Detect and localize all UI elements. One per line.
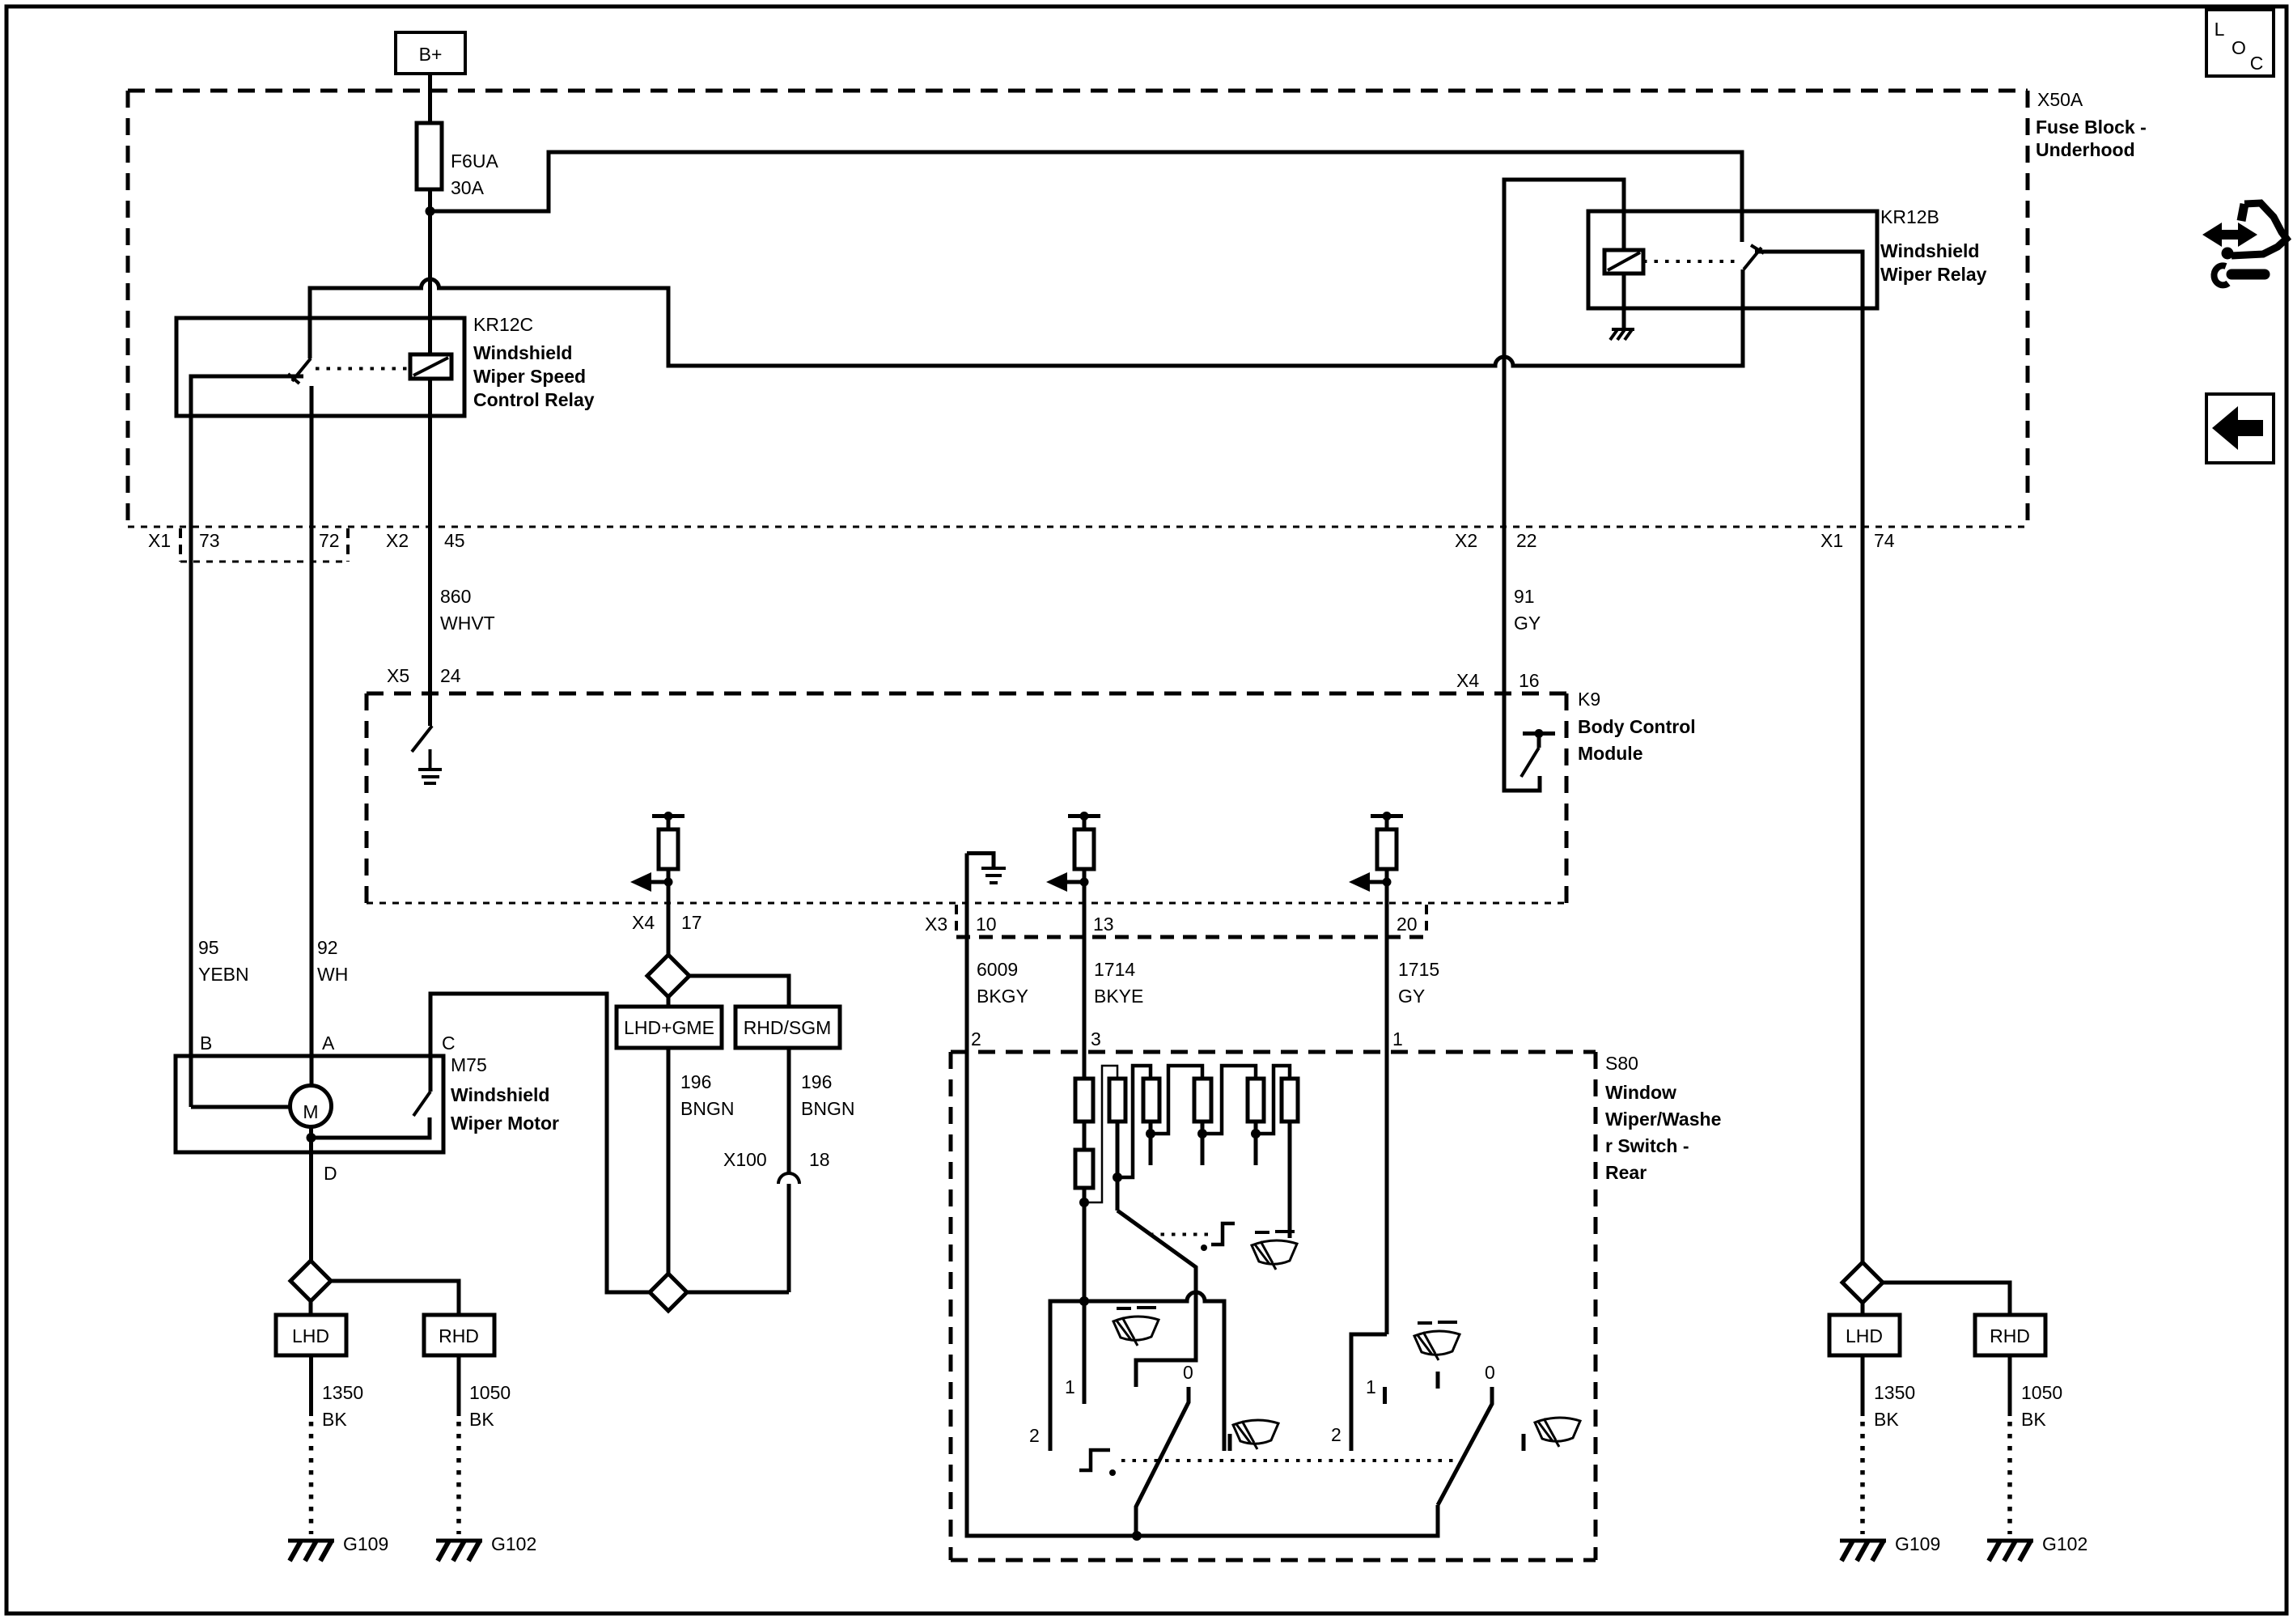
svg-text:0: 0 (1485, 1362, 1495, 1383)
upper linkage dotted line and detent (1150, 1233, 1214, 1236)
relay KR12C box (176, 318, 464, 416)
intermittent icon (upper switch) (1252, 1240, 1297, 1270)
svg-text:RHD: RHD (1990, 1325, 2030, 1346)
svg-text:1: 1 (1366, 1376, 1376, 1397)
wire 1350 BK to G109 (309, 1355, 313, 1416)
svg-text:Rear: Rear (1605, 1162, 1647, 1183)
svg-text:196: 196 (801, 1071, 832, 1092)
svg-text:18: 18 (809, 1149, 830, 1170)
wire 91 GY: fuse block internal feed to KR12B coil (1504, 180, 1624, 530)
svg-text:B: B (200, 1032, 212, 1054)
motor M (armature) (290, 1086, 332, 1127)
svg-text:YEBN: YEBN (198, 964, 249, 985)
svg-text:Wiper Speed: Wiper Speed (473, 366, 586, 387)
svg-text:20: 20 (1397, 914, 1418, 935)
svg-text:L: L (2215, 19, 2225, 40)
svg-text:Windshield: Windshield (473, 342, 572, 363)
junction dot below fuse (426, 206, 435, 216)
svg-text:BNGN: BNGN (680, 1098, 734, 1119)
wire 1050 BK to G102 (right) (2008, 1355, 2012, 1416)
svg-text:Wiper/Washe: Wiper/Washe (1605, 1109, 1721, 1130)
wire junction down to KR12C coil (428, 211, 432, 354)
svg-text:16: 16 (1519, 670, 1540, 691)
svg-text:Underhood: Underhood (2036, 139, 2135, 160)
svg-text:95: 95 (198, 937, 219, 958)
svg-text:G109: G109 (343, 1533, 388, 1554)
svg-text:LHD: LHD (292, 1325, 329, 1346)
module K9 Body Control Module dashed outline (367, 693, 1566, 903)
ground G102 (right) (1987, 1533, 2087, 1561)
wire 1714 BKYE down to S80 pin 3 (1083, 903, 1087, 1079)
KR12C coil linkage dotted line (316, 367, 409, 371)
svg-text:G109: G109 (1895, 1533, 1940, 1554)
svg-text:X1: X1 (148, 530, 171, 551)
wiper icon (lower right) (1535, 1418, 1580, 1447)
svg-text:LHD+GME: LHD+GME (624, 1017, 714, 1038)
wire junction to KR12B fixed contact (top run) (430, 152, 1743, 242)
svg-text:BKGY: BKGY (977, 986, 1028, 1007)
svg-text:0: 0 (1183, 1362, 1193, 1383)
fuse F6UA 30A (417, 123, 498, 198)
svg-text:X1: X1 (1820, 530, 1843, 551)
thin riser from Rb junction to R2 top (1084, 1066, 1117, 1202)
wire 1050 BK to G102 (457, 1355, 461, 1416)
wire motor D down to variant diamond (309, 1152, 313, 1261)
svg-text:45: 45 (444, 530, 465, 551)
resistor R5 (1248, 1079, 1264, 1122)
svg-text:Wiper Relay: Wiper Relay (1880, 264, 1987, 285)
svg-text:G102: G102 (491, 1533, 536, 1554)
icon: left arrow box (right margin) (2206, 394, 2274, 463)
svg-text:1350: 1350 (322, 1382, 363, 1403)
BCM pull-up resistor and sense arrow on wire X4-17 (630, 812, 685, 903)
svg-text:GY: GY (1514, 613, 1541, 634)
svg-text:Module: Module (1578, 743, 1643, 764)
switch S80 dashed outline (951, 1052, 1596, 1560)
svg-text:KR12C: KR12C (473, 314, 533, 335)
wire below RHD/SGM (196 BNGN) (787, 1048, 791, 1173)
KR12B coil to chassis ground wire (1622, 273, 1626, 329)
connector X1 bracket (pins 73,72) (180, 528, 348, 562)
svg-text:BK: BK (2021, 1409, 2046, 1430)
wiper icon (wash upper-left) (1113, 1317, 1159, 1346)
wiper icon (lower left) (1233, 1420, 1278, 1449)
wire KR12B output to pin 74 and down (1755, 252, 1863, 1262)
resistor R6 (1282, 1079, 1298, 1122)
svg-text:LHD: LHD (1846, 1325, 1883, 1346)
riser R4 junction to R5 top (1202, 1066, 1256, 1134)
wire below LHD+GME (196 BNGN) (667, 1048, 671, 1274)
svg-text:M: M (303, 1101, 318, 1122)
svg-text:Windshield: Windshield (451, 1084, 549, 1105)
ground G109 (288, 1533, 388, 1561)
selector contact rail (1050, 1292, 1224, 1451)
svg-text:196: 196 (680, 1071, 711, 1092)
svg-text:D: D (324, 1163, 337, 1184)
S80 right output switch blade (1438, 1387, 1492, 1505)
svg-text:RHD: RHD (439, 1325, 479, 1346)
svg-text:72: 72 (319, 530, 340, 551)
variant split diamond (top) (647, 955, 689, 997)
svg-text:BK: BK (1874, 1409, 1899, 1430)
svg-text:6009: 6009 (977, 959, 1018, 980)
variant box RHD (right) (1975, 1315, 2045, 1355)
svg-text:X3: X3 (925, 914, 947, 935)
svg-text:WH: WH (317, 964, 348, 985)
KR12C switch blade (292, 358, 311, 381)
svg-text:BK: BK (322, 1409, 347, 1430)
KR12C coil (410, 354, 451, 379)
ground G109 (right) (1840, 1533, 1940, 1561)
variant merge diamond (to wiper motor C) (650, 1274, 687, 1311)
right switch position ticks (1383, 1387, 1387, 1404)
KR12B switch blade (1744, 248, 1761, 269)
svg-text:1050: 1050 (2021, 1382, 2062, 1403)
resistor Rb (pin3 chain lower) (1075, 1150, 1093, 1188)
wire 1715 GY down to S80 pin 1 (1385, 903, 1389, 1334)
wire 1350 BK to G109 (right) (1861, 1355, 1865, 1416)
svg-text:73: 73 (199, 530, 220, 551)
svg-text:3: 3 (1091, 1028, 1101, 1049)
BCM K9 output driver switch (to wire 91) (1504, 530, 1555, 791)
relay KR12B box (1588, 211, 1877, 308)
svg-text:S80: S80 (1605, 1053, 1638, 1074)
svg-text:K9: K9 (1578, 689, 1600, 710)
riser R2 junction to R3 top (1117, 1066, 1151, 1177)
node B+ (396, 32, 465, 74)
variant diamond (KR12B output ground) (1842, 1262, 1883, 1303)
svg-text:13: 13 (1093, 914, 1114, 935)
svg-text:17: 17 (681, 912, 702, 933)
X50A labels (2036, 89, 2147, 160)
svg-text:2: 2 (1029, 1425, 1040, 1446)
motor M75 box (176, 1056, 443, 1152)
svg-text:RHD/SGM: RHD/SGM (744, 1017, 832, 1038)
motor park switch blade from C (413, 1092, 430, 1116)
motor park switch contact (312, 1117, 430, 1138)
svg-text:1714: 1714 (1094, 959, 1135, 980)
BCM ground switch blade (412, 726, 432, 752)
svg-text:M75: M75 (451, 1054, 487, 1075)
svg-text:1350: 1350 (1874, 1382, 1915, 1403)
BCM pull-up resistor and sense arrow on wire X3-13 (1046, 812, 1100, 903)
svg-text:KR12B: KR12B (1880, 206, 1939, 227)
svg-text:B+: B+ (419, 44, 443, 65)
svg-text:Control Relay: Control Relay (473, 389, 595, 410)
variant box LHD (right) (1829, 1315, 1900, 1355)
S80 position labels (1029, 1362, 1495, 1446)
svg-text:1715: 1715 (1398, 959, 1439, 980)
wire B+ down to fuse (428, 74, 432, 123)
riser R3 junction to R4 top (1151, 1066, 1202, 1134)
variant box LHD (276, 1315, 346, 1355)
svg-text:X4: X4 (1456, 670, 1479, 691)
svg-text:C: C (442, 1032, 456, 1054)
BCM pull-up resistor and sense arrow on wire X3-20 (1349, 812, 1403, 903)
variant box RHD (424, 1315, 494, 1355)
svg-text:WHVT: WHVT (440, 613, 495, 634)
svg-text:BKYE: BKYE (1094, 986, 1143, 1007)
KR12C switch output to pin 72 (310, 386, 314, 1085)
variant diamond (motor ground) (290, 1261, 331, 1301)
svg-text:2: 2 (971, 1028, 981, 1049)
svg-text:10: 10 (976, 914, 997, 935)
pin3 wire continues to contact 1 (1083, 1202, 1087, 1404)
fuse block bottom connector line (128, 526, 2028, 528)
LOC box (2206, 10, 2274, 76)
svg-text:X2: X2 (1455, 530, 1477, 551)
svg-text:X5: X5 (387, 665, 409, 686)
wire KR12B-switch-feed: KR12C fixed contact riser with hop over B+ wire (310, 269, 1743, 366)
svg-text:X4: X4 (632, 912, 655, 933)
svg-text:1: 1 (1392, 1028, 1403, 1049)
connector X3 bracket (pins 10,13,20) (956, 905, 1426, 937)
wire S80 pin 2 down to common bus (967, 1052, 1438, 1536)
svg-text:91: 91 (1514, 586, 1535, 607)
ground G102 (436, 1533, 536, 1561)
svg-text:A: A (322, 1032, 335, 1054)
wiper icon (right switch upper) (1414, 1331, 1460, 1360)
resistor R4 (1194, 1079, 1211, 1122)
BCM internal ground for wire X3-10 (967, 854, 1006, 884)
svg-text:BK: BK (469, 1409, 494, 1430)
svg-text:X100: X100 (723, 1149, 767, 1170)
svg-text:O: O (2232, 37, 2246, 58)
svg-text:1050: 1050 (469, 1382, 511, 1403)
KR12B coil (1604, 250, 1643, 273)
svg-text:92: 92 (317, 937, 338, 958)
svg-text:30A: 30A (451, 177, 485, 198)
svg-text:F6UA: F6UA (451, 151, 498, 172)
resistor R3 (1143, 1079, 1159, 1122)
svg-text:74: 74 (1874, 530, 1895, 551)
KR12C switch common wire to pin 73 (191, 376, 303, 1107)
resistor Ra (pin3 chain upper) (1075, 1079, 1093, 1122)
S80 left output switch blade (1136, 1387, 1189, 1536)
wire fuse to junction (428, 189, 432, 211)
svg-text:Body Control: Body Control (1578, 716, 1696, 737)
pin1 wire jog to contact 2 (right switch) (1351, 1334, 1387, 1451)
resistor R2 (1109, 1079, 1125, 1122)
svg-text:22: 22 (1516, 530, 1537, 551)
svg-text:C: C (2250, 53, 2264, 74)
wire X3-10 down from BCM (965, 854, 969, 1053)
svg-text:G102: G102 (2042, 1533, 2087, 1554)
svg-text:BNGN: BNGN (801, 1098, 854, 1119)
svg-text:2: 2 (1331, 1424, 1341, 1445)
wire X4-17 down to variant diamond (667, 903, 671, 955)
svg-text:Window: Window (1605, 1082, 1676, 1103)
fuse block X50A dashed outline (128, 91, 2028, 527)
svg-text:GY: GY (1398, 986, 1425, 1007)
lower linkage dotted line and detent (1121, 1459, 1456, 1462)
wire pin B to motor (191, 1105, 290, 1109)
wire motor to junction D (309, 1126, 313, 1152)
svg-text:1: 1 (1065, 1376, 1075, 1397)
icon ticks (1228, 1434, 1232, 1451)
svg-text:860: 860 (440, 586, 471, 607)
svg-text:24: 24 (440, 665, 461, 686)
icon: arrows-with-hook (top right margin) (2202, 203, 2287, 285)
svg-text:Windshield: Windshield (1880, 240, 1979, 261)
BCM internal ground (429, 749, 432, 770)
connector X100 pin 18 (778, 1173, 799, 1184)
svg-text:Wiper Motor: Wiper Motor (451, 1113, 559, 1134)
ground (KR12B coil, chassis) (1610, 329, 1634, 340)
variant box RHD/SGM (735, 1007, 840, 1048)
svg-text:X50A: X50A (2037, 89, 2083, 110)
riser R5 junction to R6 top (1256, 1066, 1290, 1134)
svg-text:Fuse Block -: Fuse Block - (2036, 117, 2147, 138)
wire KR12C coil to pin 45 (428, 379, 432, 530)
R6 tail contact (1288, 1122, 1292, 1238)
variant box LHD+GME (617, 1007, 722, 1048)
wire X5/24 into BCM internal ground switch (428, 530, 432, 726)
svg-text:X2: X2 (386, 530, 409, 551)
connector pin labels under fuse block (148, 530, 1895, 551)
KR12B coil linkage dotted line (1643, 260, 1736, 263)
S80 wiper-speed selector blade (upper) (1117, 1211, 1196, 1387)
svg-text:r Switch -: r Switch - (1605, 1135, 1689, 1156)
